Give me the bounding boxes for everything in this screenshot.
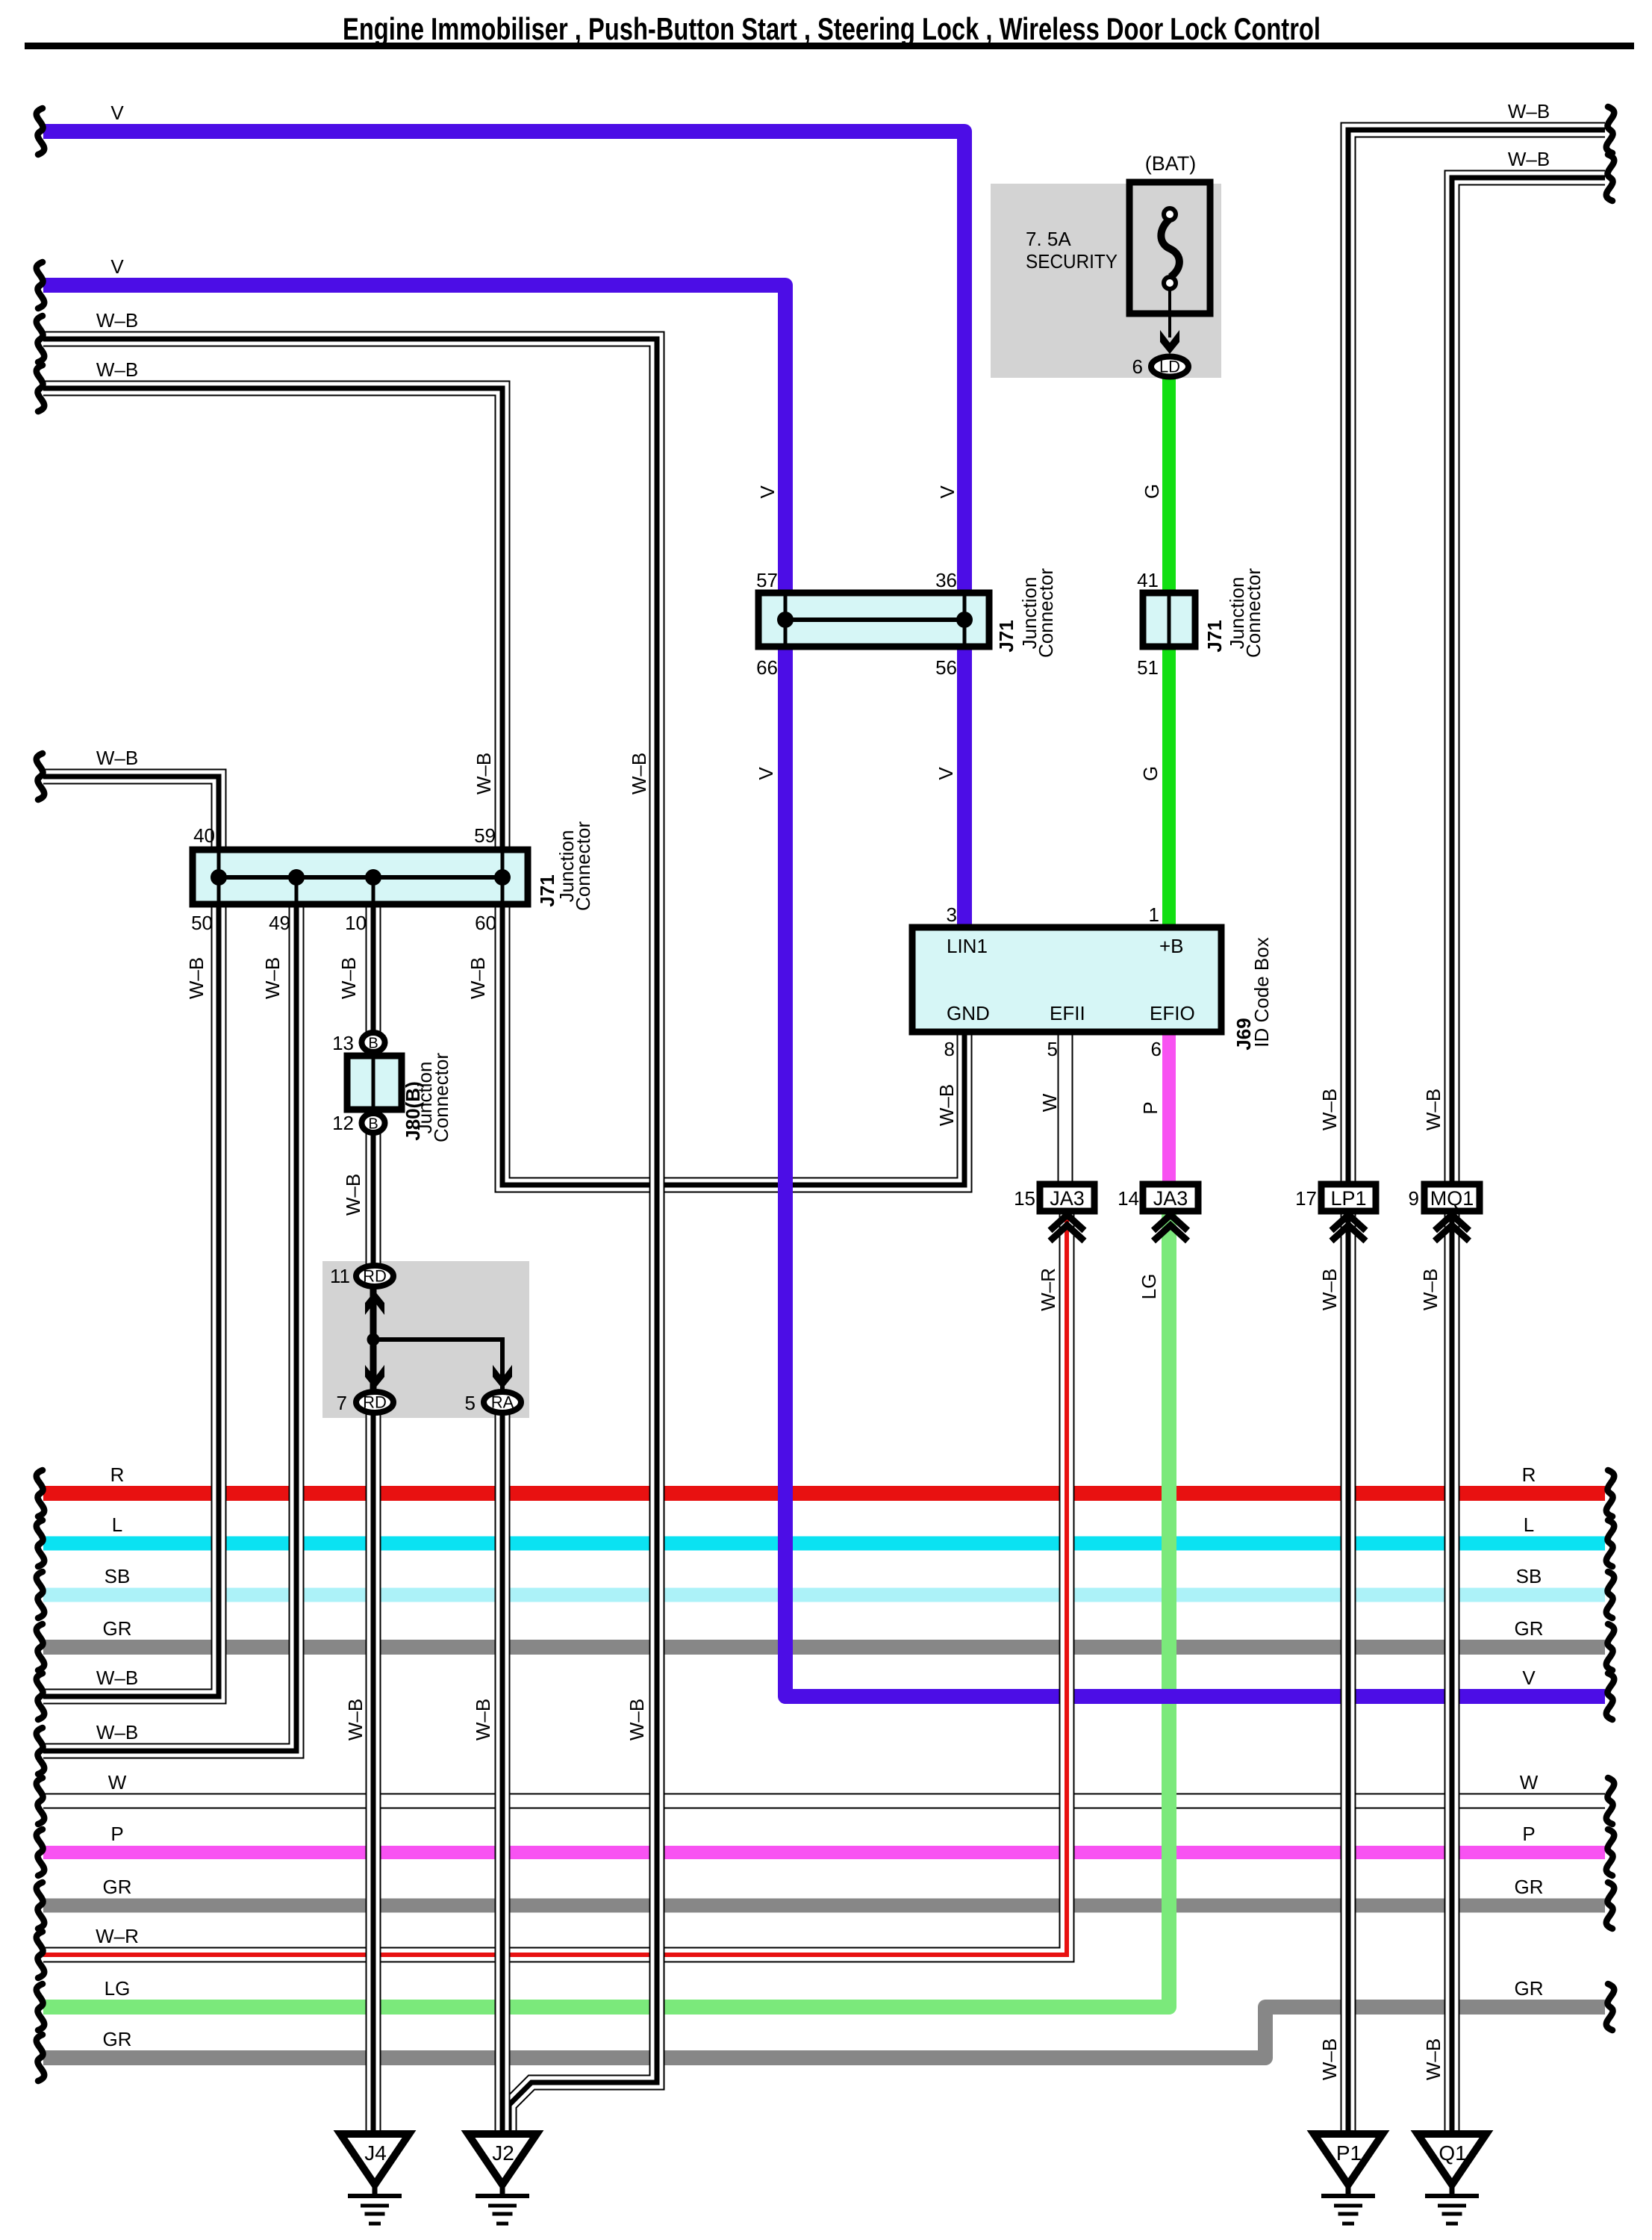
svg-text:RA: RA bbox=[491, 1393, 514, 1412]
svg-text:P: P bbox=[110, 1823, 123, 1845]
svg-text:11: 11 bbox=[330, 1265, 350, 1287]
svg-text:36: 36 bbox=[935, 569, 957, 591]
svg-text:J2: J2 bbox=[492, 2141, 514, 2165]
svg-text:V: V bbox=[755, 767, 777, 780]
wire W-B net: J71 pin49 down to left row y2345 bbox=[43, 896, 296, 1751]
wire L row bbox=[43, 1537, 1605, 1551]
svg-text:W–B: W–B bbox=[1318, 1089, 1341, 1130]
svg-text:V: V bbox=[935, 767, 957, 780]
svg-text:V: V bbox=[110, 102, 124, 124]
svg-text:14: 14 bbox=[1118, 1187, 1139, 1210]
svg-text:W–B: W–B bbox=[473, 753, 495, 794]
arrow down to 5RA bbox=[493, 1365, 512, 1389]
svg-text:5: 5 bbox=[465, 1392, 476, 1414]
wire W-B net: J80(B) B12 down to splice 11RD bbox=[366, 1133, 381, 1265]
connector 6 LD bbox=[1151, 357, 1188, 377]
wire W-B net: left y454 down x880 to J2 ground jog bbox=[43, 339, 657, 2135]
svg-text:W: W bbox=[1520, 1771, 1539, 1793]
svg-text:9: 9 bbox=[1409, 1187, 1419, 1210]
svg-text:GR: GR bbox=[103, 1876, 132, 1898]
svg-text:8: 8 bbox=[944, 1038, 955, 1060]
svg-text:J4: J4 bbox=[364, 2141, 387, 2165]
svg-text:Connector: Connector bbox=[1035, 568, 1057, 658]
svg-text:W–B: W–B bbox=[1508, 148, 1550, 170]
svg-text:P: P bbox=[1522, 1823, 1535, 1845]
connector 9 MQ1 bbox=[1424, 1184, 1480, 1211]
svg-text:W–B: W–B bbox=[1419, 1269, 1441, 1310]
wire W net EFII: J69 to JA3-15 bbox=[1058, 1029, 1073, 1187]
svg-text:P: P bbox=[1139, 1101, 1162, 1114]
svg-text:W–B: W–B bbox=[96, 1721, 138, 1743]
svg-text:W–B: W–B bbox=[96, 1667, 138, 1689]
wire R row bbox=[43, 1486, 1605, 1501]
connector 17 LP1 bbox=[1321, 1184, 1376, 1211]
fuse 7.5A SECURITY bbox=[1129, 182, 1210, 314]
wire W-B net: 5RA down to J2 ground bbox=[495, 1414, 511, 2138]
svg-text:ID Code Box: ID Code Box bbox=[1250, 937, 1273, 1047]
ground J4 bbox=[340, 2134, 409, 2185]
wire W-R net: JA3-15 down, left to edge bbox=[43, 1210, 1067, 1955]
arrow down to 7RD bbox=[365, 1365, 384, 1389]
wire W-B net: J71 pin50 down to left row y2272 bbox=[43, 901, 219, 1696]
svg-text:W–R: W–R bbox=[1037, 1268, 1059, 1311]
shade box fuse bbox=[991, 184, 1221, 378]
svg-text:57: 57 bbox=[756, 569, 778, 591]
connector 7 RD bbox=[356, 1392, 393, 1413]
wire splice 11RD to 7RD plain bbox=[370, 1288, 377, 1390]
svg-text:R: R bbox=[110, 1463, 125, 1486]
ground Q1 bbox=[1418, 2134, 1486, 2185]
junction connector J71 right box bbox=[758, 593, 989, 647]
svg-text:GR: GR bbox=[103, 2028, 132, 2050]
svg-text:L: L bbox=[112, 1513, 122, 1536]
svg-text:W–B: W–B bbox=[1318, 2038, 1341, 2080]
wire P row bbox=[43, 1846, 1605, 1859]
svg-text:40: 40 bbox=[193, 824, 215, 847]
connector 5 RA bbox=[484, 1392, 521, 1413]
svg-text:RD: RD bbox=[363, 1267, 387, 1286]
svg-text:W–B: W–B bbox=[342, 1174, 364, 1216]
svg-text:JA3: JA3 bbox=[1050, 1187, 1085, 1210]
svg-text:6: 6 bbox=[1151, 1038, 1162, 1060]
svg-text:W: W bbox=[108, 1771, 127, 1793]
connector 11 RD bbox=[356, 1266, 393, 1287]
wire W-B net: left y520 via J71 59/60 to J69 GND pin8 bbox=[43, 388, 964, 1185]
svg-text:W–B: W–B bbox=[626, 1699, 648, 1740]
junction connector J80(B) bbox=[362, 1033, 385, 1052]
svg-text:5: 5 bbox=[1047, 1038, 1058, 1060]
svg-text:J71: J71 bbox=[995, 620, 1017, 652]
wire W-B net: right edge y174 via LP1 to P1 ground bbox=[1348, 130, 1605, 2138]
svg-text:3: 3 bbox=[947, 903, 957, 926]
svg-text:Engine Immobiliser , Push-Butt: Engine Immobiliser , Push-Button Start ,… bbox=[343, 11, 1321, 46]
wire W-B net: right edge y238 via MQ1 to Q1 ground bbox=[1452, 178, 1605, 2138]
svg-text:66: 66 bbox=[756, 656, 778, 679]
svg-text:W–R: W–R bbox=[96, 1925, 139, 1947]
svg-text:60: 60 bbox=[475, 912, 496, 934]
svg-text:LP1: LP1 bbox=[1330, 1187, 1366, 1210]
svg-text:59: 59 bbox=[474, 824, 496, 847]
wire W-B net: J71 pin10 down to J80(B) B13 bbox=[366, 901, 381, 1032]
svg-text:V: V bbox=[1522, 1667, 1536, 1689]
wire P net EFIO: J69 to JA3-14 bbox=[1162, 1029, 1176, 1187]
svg-text:(BAT): (BAT) bbox=[1145, 152, 1197, 175]
junction connector J71 small box bbox=[1143, 593, 1195, 647]
svg-text:13: 13 bbox=[332, 1032, 354, 1054]
wire W-B net: 7RD down to J4 ground bbox=[366, 1414, 381, 2138]
svg-text:SB: SB bbox=[105, 1565, 131, 1587]
svg-text:LG: LG bbox=[105, 1977, 131, 2000]
svg-text:J71: J71 bbox=[1203, 620, 1226, 652]
junction connector J71 left box bbox=[193, 850, 528, 904]
svg-text:W–B: W–B bbox=[261, 957, 284, 999]
svg-text:Q1: Q1 bbox=[1439, 2141, 1466, 2165]
svg-text:1: 1 bbox=[1149, 903, 1159, 926]
wire SB row bbox=[43, 1588, 1605, 1602]
svg-text:W–B: W–B bbox=[467, 957, 489, 999]
svg-text:W–B: W–B bbox=[337, 957, 360, 999]
svg-text:GND: GND bbox=[947, 1002, 990, 1024]
svg-text:GR: GR bbox=[1515, 1876, 1544, 1898]
wire GR row bottom with jog bbox=[43, 2007, 1605, 2058]
svg-text:W–B: W–B bbox=[344, 1699, 367, 1740]
wire W-B net: left y1040 to J71 pin40 bbox=[43, 777, 219, 853]
svg-text:W–B: W–B bbox=[1508, 100, 1550, 122]
svg-text:W–B: W–B bbox=[1422, 1089, 1444, 1130]
svg-text:GR: GR bbox=[1515, 1617, 1544, 1640]
junction dot splice bbox=[367, 1334, 380, 1346]
svg-text:SB: SB bbox=[1516, 1565, 1542, 1587]
ground J2 bbox=[468, 2134, 537, 2185]
svg-text:10: 10 bbox=[345, 912, 367, 934]
svg-text:41: 41 bbox=[1137, 569, 1159, 591]
svg-text:W–B: W–B bbox=[1318, 1269, 1341, 1310]
svg-text:W–B: W–B bbox=[472, 1699, 494, 1740]
svg-text:15: 15 bbox=[1014, 1187, 1035, 1210]
svg-text:LIN1: LIN1 bbox=[947, 935, 988, 957]
svg-text:R: R bbox=[1522, 1463, 1536, 1486]
svg-text:17: 17 bbox=[1295, 1187, 1317, 1210]
svg-text:50: 50 bbox=[191, 912, 213, 934]
connector 14 JA3 bbox=[1143, 1184, 1198, 1211]
fuse arrow bbox=[1160, 330, 1179, 354]
svg-text:G: G bbox=[1139, 766, 1162, 781]
wire V net2: left edge y382 down at x1052 to V row right edge bbox=[43, 285, 1605, 1696]
svg-text:V: V bbox=[936, 485, 959, 499]
svg-text:SECURITY: SECURITY bbox=[1026, 250, 1118, 273]
svg-text:G: G bbox=[1141, 484, 1163, 499]
wire V net1: left edge y176 down at x1292 to J69 pin3 bbox=[43, 131, 964, 930]
wire G net: fuse LD down to J69 +B bbox=[1162, 377, 1176, 930]
svg-text:W: W bbox=[1038, 1093, 1061, 1112]
svg-text:B: B bbox=[368, 1116, 378, 1133]
svg-text:W–B: W–B bbox=[935, 1084, 958, 1126]
wire GR row mid bbox=[43, 1899, 1605, 1913]
ID code box J69 bbox=[912, 927, 1221, 1032]
svg-text:JA3: JA3 bbox=[1153, 1187, 1188, 1210]
svg-text:7. 5A: 7. 5A bbox=[1026, 228, 1071, 250]
wire LG net: JA3-14 down, left to edge bbox=[43, 1210, 1169, 2007]
svg-text:V: V bbox=[756, 485, 779, 499]
svg-text:56: 56 bbox=[935, 656, 957, 679]
svg-text:W–B: W–B bbox=[185, 957, 208, 999]
svg-text:+B: +B bbox=[1159, 935, 1184, 957]
svg-text:12: 12 bbox=[332, 1112, 354, 1134]
svg-text:W–B: W–B bbox=[96, 309, 138, 332]
svg-text:49: 49 bbox=[269, 912, 290, 934]
svg-text:B: B bbox=[368, 1036, 378, 1052]
svg-text:V: V bbox=[110, 255, 124, 278]
svg-text:L: L bbox=[1524, 1513, 1534, 1536]
svg-text:EFIO: EFIO bbox=[1150, 1002, 1195, 1024]
wire W row bbox=[43, 1793, 1605, 1809]
svg-text:Connector: Connector bbox=[430, 1053, 452, 1142]
svg-text:Connector: Connector bbox=[572, 821, 594, 911]
svg-text:RD: RD bbox=[363, 1393, 387, 1412]
svg-text:51: 51 bbox=[1137, 656, 1159, 679]
wire splice branch to 5RA plain bbox=[373, 1340, 502, 1390]
svg-text:GR: GR bbox=[1515, 1977, 1544, 2000]
svg-text:W–B: W–B bbox=[1422, 2038, 1444, 2080]
svg-text:7: 7 bbox=[337, 1392, 347, 1414]
svg-text:GR: GR bbox=[103, 1617, 132, 1640]
svg-text:6: 6 bbox=[1132, 355, 1143, 378]
svg-text:EFII: EFII bbox=[1050, 1002, 1085, 1024]
svg-text:LG: LG bbox=[1138, 1274, 1160, 1300]
svg-text:P1: P1 bbox=[1336, 2141, 1362, 2165]
shade box RD/RA splice bbox=[322, 1261, 529, 1418]
svg-text:W–B: W–B bbox=[628, 753, 650, 794]
ground P1 bbox=[1314, 2134, 1383, 2185]
svg-text:MQ1: MQ1 bbox=[1430, 1187, 1474, 1210]
connector 15 JA3 bbox=[1040, 1184, 1094, 1211]
svg-text:W–B: W–B bbox=[96, 358, 138, 381]
wire GR row upper bbox=[43, 1640, 1605, 1655]
arrow up to 11RD bbox=[365, 1291, 384, 1315]
svg-text:LD: LD bbox=[1159, 358, 1180, 376]
svg-text:Connector: Connector bbox=[1242, 568, 1265, 658]
svg-text:W–B: W–B bbox=[96, 747, 138, 769]
